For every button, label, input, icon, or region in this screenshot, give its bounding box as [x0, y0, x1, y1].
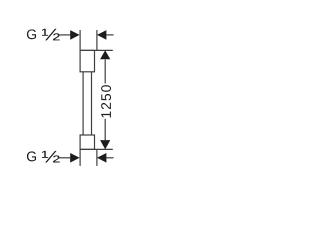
wire: top extension line left	[79, 30, 81, 50]
arrow left-pointing top	[97, 30, 106, 40]
wire: bottom dimension tail left	[58, 157, 71, 159]
arrow up (1250 dimension)	[100, 50, 110, 59]
wire: bottom extension line right	[96, 149, 98, 166]
arrow left-pointing bottom	[97, 153, 106, 163]
top hose fitting body	[80, 50, 94, 71]
label 1250 (rotated)	[101, 85, 111, 117]
wire: dimension line upper segment	[104, 60, 106, 84]
wire: top extension line right	[96, 30, 98, 50]
wire: bottom dimension tail right	[106, 157, 113, 159]
label G 1/2 bottom	[27, 151, 36, 161]
wire: hose right edge	[91, 72, 93, 135]
wire: top dimension tail left	[58, 34, 71, 36]
arrow right-pointing bottom	[70, 153, 79, 163]
wire: hose left edge	[82, 72, 84, 135]
wire: top dimension tail right	[106, 34, 113, 36]
wire: bottom fitting bottom edge + extension to dimension line	[80, 148, 113, 150]
wire: bottom extension line left	[79, 149, 81, 166]
label G 1/2 top	[27, 29, 36, 39]
wire: top fitting top edge + extension to dimension line	[80, 49, 113, 51]
wire: dimension line lower segment	[104, 119, 106, 141]
arrow right-pointing top	[70, 30, 79, 40]
bottom hose fitting body	[80, 135, 94, 149]
arrow down (1250 dimension)	[100, 140, 110, 149]
